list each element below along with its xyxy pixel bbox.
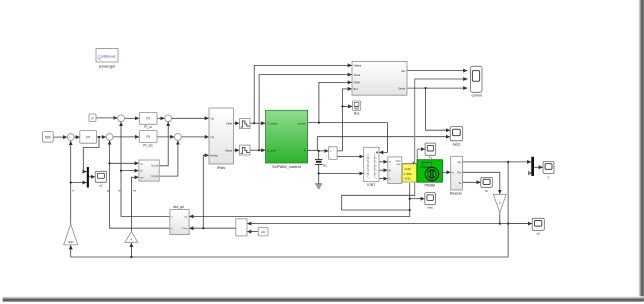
- wire iq feedback vertical: [110, 141, 170, 228]
- svg-text:abc_qd: abc_qd: [173, 205, 184, 209]
- wire wm branch down and bottom feedback: [71, 162, 508, 257]
- abc_qd transform block: [170, 205, 189, 235]
- scope iabc: [425, 193, 436, 210]
- scope th: [532, 218, 544, 235]
- wire iPark Ubeta to sat2: [234, 149, 240, 151]
- wire sum5 to iPark Uq: [181, 136, 208, 138]
- svg-text:PI: PI: [146, 117, 149, 121]
- iPark block: [209, 108, 234, 170]
- svg-text:Bus: Bus: [354, 111, 360, 115]
- sum junction S3: [118, 115, 125, 122]
- scope n2: [95, 171, 106, 187]
- svg-text:Sector: Sector: [398, 87, 405, 90]
- svg-text:Measure: Measure: [450, 192, 463, 196]
- svg-text:PI: PI: [146, 135, 149, 139]
- svg-text:U_beta: U_beta: [267, 148, 276, 152]
- gain block K down: [493, 194, 506, 213]
- junction bus: [341, 105, 343, 107]
- wire PI_ui to sum4: [157, 117, 164, 119]
- svg-text:0: 0: [92, 116, 94, 120]
- junction bottom wire: [130, 256, 132, 258]
- wire adjust block out to abc_qd theta: [190, 227, 236, 229]
- svg-text:IGBT: IGBT: [367, 183, 375, 187]
- wire PI to sum2: [97, 136, 106, 138]
- svg-text:PWM: PWM: [354, 82, 360, 85]
- svg-text:DC: DC: [323, 164, 328, 168]
- scope sabc1: [450, 127, 463, 147]
- svg-text:Ud: Ud: [211, 117, 215, 121]
- wire abc out to scope current: [407, 70, 467, 72]
- wire 500 to sum1: [53, 136, 67, 138]
- junction DC minus: [318, 172, 320, 174]
- svg-text:n: n: [548, 176, 550, 180]
- Measure block: [450, 156, 463, 195]
- wire sat2 to SvPWM U_beta: [250, 149, 265, 151]
- junction theta cross: [507, 223, 509, 225]
- ground: [316, 184, 322, 188]
- wire vm to IGBT plus: [337, 156, 363, 158]
- mux n: [531, 157, 534, 176]
- PI controller PI_ui: [139, 112, 157, 129]
- svg-text:pi0: pi0: [261, 230, 265, 234]
- scope current: [471, 66, 483, 97]
- wire loop left of iabc: [342, 195, 415, 210]
- svg-text:pulses: pulses: [298, 121, 306, 125]
- svg-text:iq: iq: [107, 189, 110, 193]
- junction iabc scope: [409, 198, 411, 200]
- svg-text:1.694: 1.694: [404, 172, 412, 176]
- wire measurement to PMSM a: [402, 163, 417, 165]
- frame right border: [638, 0, 644, 302]
- wire DC plus to vm block: [319, 150, 329, 152]
- junction theta gain: [499, 223, 501, 225]
- svg-text:we: we: [133, 190, 137, 193]
- scope Tq: [425, 143, 436, 160]
- wire N output to scope sabc1: [308, 137, 450, 151]
- wire PWM branch up to sector block: [319, 82, 352, 122]
- sum junction S4: [165, 115, 172, 122]
- scope Te: [481, 177, 493, 192]
- junction iq: [109, 162, 111, 164]
- wire mux n to scope n: [534, 166, 543, 168]
- svg-text:Valpha: Valpha: [354, 65, 362, 68]
- svg-text:PMSM: PMSM: [424, 184, 435, 188]
- svg-text:w: w: [72, 190, 74, 193]
- saturation block 2: [240, 145, 251, 155]
- junction pulses: [318, 122, 320, 124]
- svg-text:U_alpha: U_alpha: [267, 121, 278, 125]
- display block (yellow): [402, 164, 416, 182]
- wire we from gain2 up to decouple: [131, 177, 138, 231]
- junction Valpha: [253, 122, 255, 124]
- svg-text:Ud_fa: Ud_fa: [151, 165, 158, 168]
- wire pi0 to adjust block: [248, 231, 259, 233]
- svg-text:N: N: [304, 148, 306, 152]
- wire Vabc bus up to scope current (gray): [415, 79, 467, 195]
- svg-text:Ubeta: Ubeta: [225, 148, 232, 152]
- svg-text:sabc1: sabc1: [452, 142, 461, 146]
- wire id feedback vertical: [121, 122, 170, 216]
- wire Vbeta branch up to sector block: [259, 75, 351, 151]
- wire iq branch to decouple: [110, 162, 139, 164]
- wire pulses to IGBT g: [308, 123, 388, 153]
- decoupling block: [139, 160, 159, 181]
- svg-text:PI_ui1: PI_ui1: [143, 143, 153, 147]
- wire to scope Tq: [417, 149, 424, 159]
- gain p: [125, 232, 138, 243]
- svg-text:30/pi: 30/pi: [68, 241, 74, 244]
- wire Sector branch down to sabc1: [426, 88, 450, 130]
- wire branch up to gain2: [130, 243, 132, 257]
- svg-text:wm: wm: [457, 161, 461, 164]
- svg-text:powergui: powergui: [99, 64, 115, 69]
- wire theta long line: [248, 223, 533, 225]
- wire sum2 to PI_ui1: [113, 136, 139, 138]
- wire down gain output: [499, 213, 501, 224]
- wire branch to scope iabc: [410, 198, 425, 200]
- wire Te to scope Te: [462, 181, 480, 183]
- wire iPark Ualfa to sat1: [234, 122, 240, 124]
- svg-text:n2: n2: [99, 184, 103, 188]
- wire sum3 to PI_ui: [124, 117, 138, 119]
- svg-text:-: -: [330, 156, 331, 159]
- wire measurement to PMSM c: [402, 177, 417, 179]
- wire theta to scope th: [510, 223, 532, 225]
- PI controller speed: [80, 131, 97, 144]
- junction iabc lower: [409, 209, 411, 211]
- DC voltage source battery: [315, 160, 328, 168]
- wire bus vertical to sector block: [337, 89, 351, 151]
- constant 0: [89, 114, 96, 122]
- wire branch to mux n2 lower input: [71, 182, 87, 184]
- SvPWM_control block: [266, 110, 308, 169]
- wire iabc long line to abc_qd: [190, 215, 410, 217]
- wire id branch to decouple: [121, 170, 138, 172]
- wire measurement to PMSM b: [402, 170, 417, 172]
- svg-text:PI_ui: PI_ui: [144, 125, 152, 129]
- svg-text:current: current: [472, 94, 483, 98]
- IGBT inverter block: [364, 147, 379, 187]
- wire IGBT A to measurement: [379, 161, 387, 163]
- PMSM motor block: [417, 160, 443, 188]
- wire PI output branch down to mux n2: [83, 137, 99, 172]
- svg-text:Uq_fa: Uq_fa: [151, 175, 158, 178]
- sum junction S1: [67, 134, 74, 141]
- svg-text:SvPWM_control: SvPWM_control: [272, 164, 301, 169]
- svg-text:PI: PI: [86, 135, 89, 139]
- junction id: [120, 170, 122, 172]
- wire speed feedback down to gain 30/pi: [70, 141, 72, 223]
- svg-text:thetha: thetha: [211, 154, 219, 158]
- svg-text:Theta: Theta: [182, 227, 188, 230]
- wire const 0 to sum3: [96, 117, 117, 119]
- svg-text:Te: Te: [485, 189, 488, 193]
- wire sat1 to SvPWM U_alpha: [250, 122, 265, 124]
- theta adjust block: [236, 219, 247, 236]
- wire mux n2 to scope n2: [89, 176, 95, 178]
- gain 30/pi: [64, 224, 78, 245]
- mux n2: [87, 167, 89, 188]
- junction speed feedback: [70, 181, 72, 183]
- Bus display block: [353, 101, 361, 115]
- wire DC minus to IGBT minus: [319, 172, 364, 174]
- PI controller PI_ui1: [139, 131, 157, 148]
- sum junction S2: [106, 134, 113, 141]
- svg-text:Ualfa: Ualfa: [226, 121, 233, 125]
- junction on PI output: [98, 136, 100, 138]
- wire decouple out1 up to sum4: [159, 122, 168, 166]
- svg-text:Continuous: Continuous: [98, 55, 115, 59]
- svg-text:The: The: [457, 172, 462, 175]
- wire IGBT B to measurement: [379, 169, 387, 171]
- saturation block 1: [240, 119, 251, 129]
- wire DC source rail: [318, 151, 320, 184]
- wire IGBT C to measurement: [379, 178, 387, 180]
- sector calculator block: [352, 61, 407, 95]
- svg-text:+: +: [68, 135, 70, 139]
- svg-text:id: id: [118, 189, 121, 193]
- svg-text:wf: wf: [537, 232, 540, 236]
- svg-text:iabc: iabc: [427, 206, 433, 210]
- wire Thetae to down gain: [461, 172, 500, 193]
- svg-text:Uq: Uq: [211, 135, 215, 139]
- wire wm to mux n: [461, 161, 531, 163]
- wire PI_ui1 to sum5: [157, 136, 174, 138]
- svg-text:Vbeta: Vbeta: [354, 74, 361, 77]
- constant pi0: [258, 227, 268, 236]
- wire sum4 to iPark Ud: [172, 117, 209, 119]
- wire decouple out2 up to sum5: [159, 141, 178, 176]
- wire PMSM m to Measure: [443, 171, 451, 173]
- three-phase VI measurement block: [388, 157, 402, 184]
- svg-text:500: 500: [45, 136, 51, 140]
- wire theta up to iPark: [203, 155, 208, 228]
- scope n: [543, 161, 554, 179]
- wire measurement Iabc down: [409, 183, 411, 216]
- svg-text:m: m: [452, 172, 454, 175]
- wire branch to Bus display: [342, 105, 352, 107]
- junction wm: [507, 161, 509, 163]
- junction sector: [425, 87, 427, 89]
- svg-text:Bus: Bus: [354, 88, 359, 91]
- junction theta branch: [202, 227, 204, 229]
- constant 500: [43, 132, 54, 143]
- svg-text:-0.51: -0.51: [404, 177, 411, 181]
- svg-text:K: K: [499, 201, 501, 205]
- svg-text:Tq: Tq: [429, 156, 433, 160]
- frame bottom border: [3, 296, 644, 302]
- wire Valpha branch up to sector block: [254, 65, 351, 123]
- svg-text:iPark: iPark: [217, 166, 225, 170]
- wire Sector out to scope current: [407, 87, 467, 89]
- junction Vbeta: [258, 149, 260, 151]
- junction DC plus: [318, 150, 320, 152]
- powergui block: [96, 49, 118, 69]
- svg-text:-0.02: -0.02: [404, 167, 411, 171]
- voltage measurement vm: [329, 147, 337, 160]
- svg-text:C: C: [389, 178, 391, 181]
- wire sum1 to PI: [74, 136, 79, 138]
- sum junction S5: [175, 134, 182, 141]
